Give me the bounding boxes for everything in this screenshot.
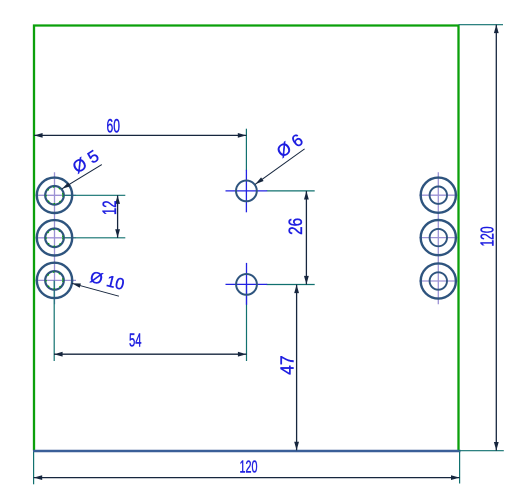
center mark hole L3 (lavender crosshair) xyxy=(36,279,77,281)
hole L3 thread circle (green) xyxy=(46,272,63,289)
extension line: 54-dim right (teal vertical below hole C2) xyxy=(246,284,248,361)
extension line: bottom-120 left (teal vertical) xyxy=(33,452,35,484)
leader Ø5 (to hole L1 inner circle) xyxy=(62,146,103,189)
dimension 12 (vertical, between L1-L2) xyxy=(100,195,121,238)
center mark hole R3 (lavender crosshair) xyxy=(419,280,457,282)
dimension 120 (vertical, right) xyxy=(477,25,498,451)
svg-text:60: 60 xyxy=(106,117,120,138)
extension line: 26/47-dim shared (teal horizontal from hole C2) xyxy=(267,284,315,286)
center mark hole C1 (blue crosshair) xyxy=(226,170,268,213)
extension line: 54-dim left (teal vertical below hole L3) xyxy=(53,280,55,361)
svg-text:54: 54 xyxy=(129,330,142,351)
center mark hole L2 (lavender crosshair) xyxy=(36,237,77,239)
plate bottom edge (steel blue) xyxy=(33,450,461,453)
hole L2 thread circle (green) xyxy=(46,230,63,247)
svg-text:120: 120 xyxy=(477,227,497,247)
center mark hole R1 (lavender crosshair) xyxy=(419,172,457,304)
svg-text:120: 120 xyxy=(240,457,258,477)
dimension 120 (horizontal, bottom) xyxy=(34,457,460,480)
svg-text:Ø 6: Ø 6 xyxy=(273,130,306,161)
center mark hole R2 (lavender crosshair) xyxy=(419,237,457,239)
hole L1 thread circle (green) xyxy=(46,187,63,204)
leader Ø6 (to hole C1) xyxy=(255,130,306,184)
extension line: 12-dim top (teal horizontal from hole L1) xyxy=(63,194,125,196)
center mark hole L1 (lavender crosshair) xyxy=(36,172,77,304)
dimension 60 (horizontal, top) xyxy=(34,117,246,138)
hole R2 xyxy=(421,220,456,255)
hole R1 xyxy=(421,178,456,213)
leader Ø10 (to hole L3 outer circle) xyxy=(72,269,126,296)
center mark hole C2 (blue crosshair) xyxy=(226,263,268,305)
plate outline (green, open at bottom) xyxy=(34,26,459,451)
extension line: 60-dim right (teal vertical above center hole) xyxy=(245,129,247,171)
dimension 47 (vertical, C2 to bottom edge) xyxy=(278,285,299,451)
svg-text:12: 12 xyxy=(100,201,121,216)
svg-text:Ø 10: Ø 10 xyxy=(88,269,126,294)
hole L3 xyxy=(37,263,72,298)
extension line: right-120 top (teal horizontal) xyxy=(459,24,504,26)
extension line: 26-dim top (teal horizontal from hole C1) xyxy=(267,190,315,192)
hole R3 xyxy=(421,263,456,298)
hole L1 (counterbore Ø10 / hole Ø5) xyxy=(37,178,72,213)
svg-text:47: 47 xyxy=(278,355,298,375)
hole L2 xyxy=(37,220,72,255)
hole C1 (Ø6) xyxy=(236,181,257,202)
dimension 54 (horizontal, L3 to C2) xyxy=(54,330,247,357)
svg-text:Ø 5: Ø 5 xyxy=(69,146,102,177)
extension line: bottom-120 right (teal vertical) xyxy=(459,452,461,484)
extension line: 12-dim bottom (teal horizontal from hole L2) xyxy=(63,237,125,239)
svg-text:26: 26 xyxy=(286,218,307,235)
hole C2 (Ø6) xyxy=(236,274,257,295)
extension line: right-120 bottom (teal horizontal) xyxy=(459,450,504,452)
dimension 26 (vertical, between C1-C2) xyxy=(286,191,309,285)
